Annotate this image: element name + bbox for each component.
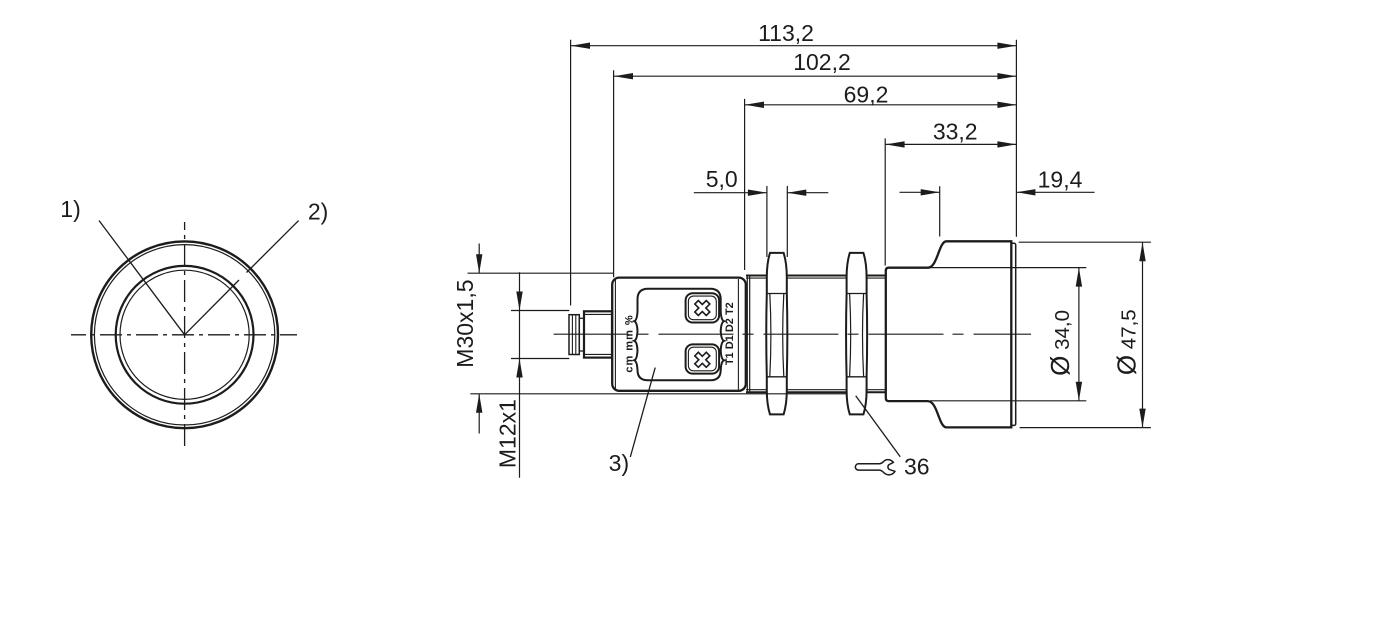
label plate with scalloped edges [634,289,724,381]
leader to wrench 36 [856,396,901,457]
dimension M30x1,5 [468,244,847,434]
svg-text:113,2: 113,2 [758,20,814,46]
side view: main center line [554,333,1032,335]
svg-text:33,2: 33,2 [933,119,978,145]
dimension 33,2 [885,138,1016,265]
front view: center lines [71,334,297,336]
svg-text:T1 D1 D2 T2: T1 D1 D2 T2 [724,302,736,365]
barrel thread lines [746,275,767,277]
housing body [612,278,746,391]
collar double vertical [746,276,748,393]
svg-text:M30x1,5: M30x1,5 [452,279,478,367]
front view: outer circle (housing) thick [91,241,278,428]
svg-text:5,0: 5,0 [706,166,738,192]
dimension M12x1 [511,272,569,478]
wrench icon [855,460,895,475]
X mark top button [695,301,710,316]
X mark bottom button [695,352,710,367]
housing left inner line [614,279,616,390]
svg-text:102,2: 102,2 [793,49,851,75]
svg-text:19,4: 19,4 [1038,167,1083,193]
dimension 102,2 [614,70,1017,277]
front view: inner circle (transducer) thick [116,266,254,404]
M12 connector neck [579,318,584,351]
M12 connector knurled ring [569,315,579,355]
hex nut 2 [846,253,867,415]
hex nut 1 [766,253,787,415]
front view: outer circle inner line [94,245,274,425]
dimension dia 34,0 [930,268,1086,401]
svg-text:3): 3) [609,450,629,476]
button T1/D1 (top) [686,293,720,322]
svg-text:cm mm %: cm mm % [624,314,636,372]
dimension 69,2 [745,99,1017,270]
dimension 19,4 [900,186,1095,236]
svg-text:36: 36 [904,454,930,480]
front view: inner circle inner line [120,270,249,399]
sensing face plate [1011,243,1015,425]
leader line 1) [99,221,185,335]
housing right inner line [737,279,739,390]
leader to 3) [630,368,655,457]
button D2/T2 (bottom) [686,344,720,373]
mid section + head outline [886,241,1012,427]
M12 connector threaded body [584,311,612,357]
dimension 5,0 [694,186,829,257]
svg-text:M12x1: M12x1 [495,399,521,468]
dimension 113,2 [571,40,1017,306]
svg-text:1): 1) [60,196,80,222]
leader line 2) [247,221,299,273]
dimension dia 47,5 [1019,242,1151,427]
svg-text:69,2: 69,2 [844,81,889,107]
svg-text:2): 2) [308,199,328,225]
